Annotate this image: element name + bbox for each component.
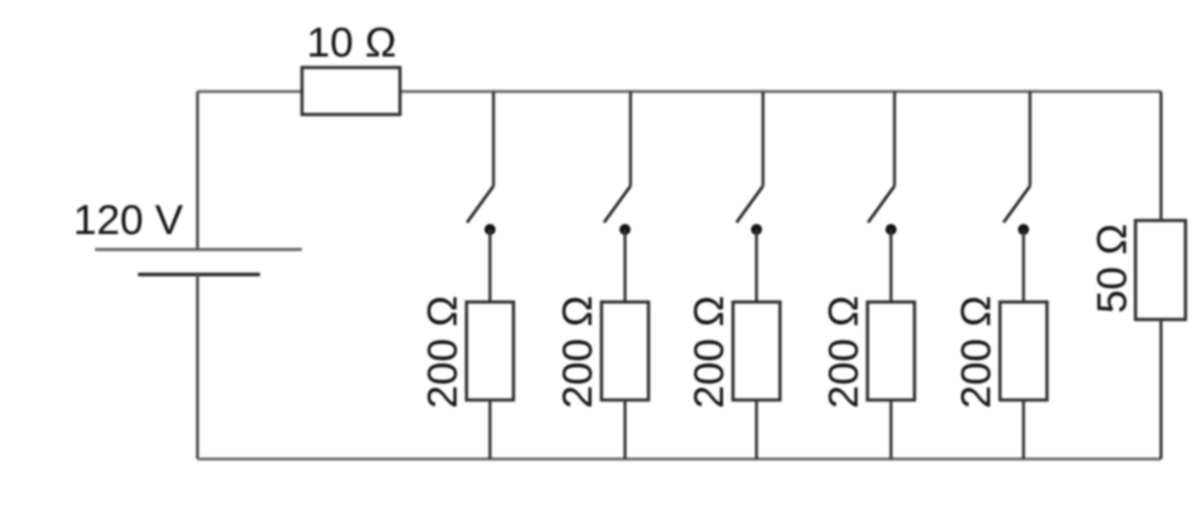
switch S4 terminal dot — [886, 224, 897, 235]
svg-text:120 V: 120 V — [73, 196, 183, 243]
svg-text:200 Ω: 200 Ω — [419, 295, 466, 408]
battery B1 long plate (+) — [95, 248, 302, 251]
resistor R2 200 ohm body — [467, 302, 514, 400]
wire: switch S3 to resistor R4 — [755, 230, 758, 303]
switch S2 terminal dot — [620, 224, 631, 235]
wire: top rail right segment (R1 to right corner) — [400, 90, 1161, 93]
switch S2 open blade — [604, 186, 631, 223]
resistor R5 200 ohm body — [868, 302, 915, 400]
branch 4: wire from top rail to switch S4 — [893, 92, 896, 187]
svg-text:200 Ω: 200 Ω — [685, 295, 732, 408]
label: R1 value 10 Ω — [307, 19, 397, 66]
wire: switch S4 to resistor R5 — [890, 230, 893, 303]
branch 2: wire from top rail to switch S2 — [629, 92, 632, 187]
switch S4 open blade — [868, 186, 895, 223]
wire: resistor R5 to bottom rail — [890, 400, 893, 459]
wire: resistor R6 to bottom rail — [1022, 400, 1025, 459]
svg-text:50 Ω: 50 Ω — [1088, 224, 1135, 314]
svg-text:10 Ω: 10 Ω — [307, 19, 397, 66]
wire: resistor R4 to bottom rail — [755, 400, 758, 459]
switch S1 terminal dot — [485, 224, 496, 235]
switch S5 open blade — [1004, 186, 1031, 223]
wire: bottom rail — [198, 458, 1162, 461]
battery B1 positive lead (top vertical wire) — [196, 92, 199, 250]
branch 1: wire from top rail to switch S1 — [492, 92, 495, 187]
wire: switch S1 to resistor R2 — [489, 230, 492, 303]
label: R4 value 200 Ω (rotated) — [685, 295, 732, 408]
switch S5 terminal dot — [1018, 224, 1029, 235]
svg-text:200 Ω: 200 Ω — [554, 295, 601, 408]
switch S1 open blade — [467, 186, 494, 223]
battery B1 negative lead (bottom vertical wire) — [196, 275, 199, 460]
branch 5: wire from top rail to switch S5 — [1029, 92, 1032, 187]
branch 3: wire from top rail to switch S3 — [762, 92, 765, 187]
svg-text:200 Ω: 200 Ω — [952, 295, 999, 408]
wire: resistor R2 to bottom rail — [489, 400, 492, 459]
wire: top rail left segment (battery + to R1) — [198, 90, 303, 93]
battery B1 short plate (-) — [138, 273, 260, 277]
wire: right rail upper segment (top rail to R7) — [1160, 92, 1163, 221]
label: R2 value 200 Ω (rotated) — [419, 295, 466, 408]
resistor R4 200 ohm body — [733, 302, 780, 400]
wire: right rail lower segment (R7 to bottom rail) — [1160, 320, 1163, 460]
switch S3 terminal dot — [751, 224, 762, 235]
resistor R7 50 ohm body — [1136, 221, 1186, 320]
switch S3 open blade — [737, 186, 764, 223]
resistor R3 200 ohm body — [602, 302, 649, 400]
wire: switch S5 to resistor R6 — [1022, 230, 1025, 303]
wire: resistor R3 to bottom rail — [624, 400, 627, 459]
wire: switch S2 to resistor R3 — [624, 230, 627, 303]
label: R5 value 200 Ω (rotated) — [820, 295, 867, 408]
label: R3 value 200 Ω (rotated) — [554, 295, 601, 408]
label: R6 value 200 Ω (rotated) — [952, 295, 999, 408]
resistor R6 200 ohm body — [1000, 302, 1047, 400]
label: R7 value 50 Ω (rotated) — [1088, 224, 1135, 314]
svg-text:200 Ω: 200 Ω — [820, 295, 867, 408]
resistor R1 10 ohm body — [302, 68, 400, 115]
label: battery value 120 V — [73, 196, 183, 243]
